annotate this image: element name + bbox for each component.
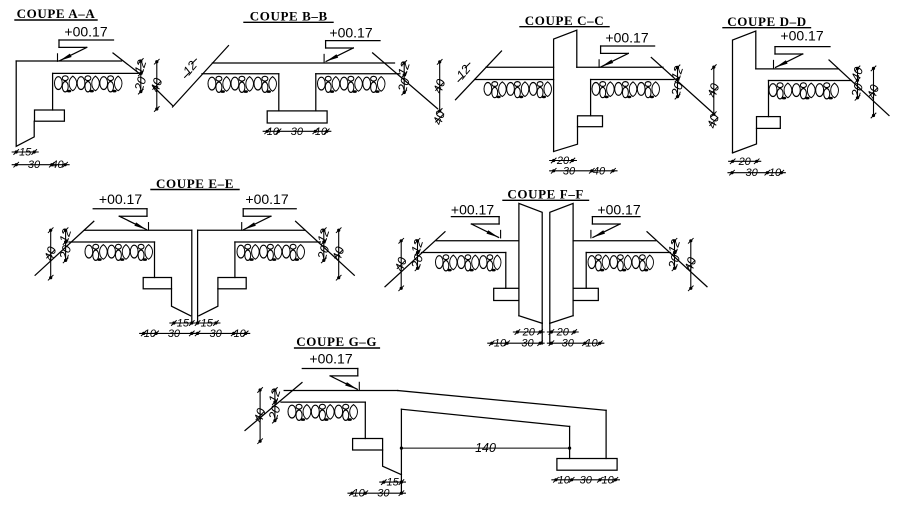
svg-text:30: 30: [168, 328, 181, 340]
section B-B break line right: [373, 53, 438, 109]
section D-D dims 20: [729, 160, 761, 162]
svg-text:20: 20: [522, 327, 536, 339]
svg-text:10: 10: [144, 328, 157, 340]
section F-F break line left: [385, 232, 445, 287]
section G-G slab top: [284, 390, 398, 392]
section E-E slab top right: [198, 229, 305, 231]
section E-E level mark right: [243, 208, 296, 210]
svg-text:40: 40: [593, 165, 606, 177]
svg-text:40: 40: [51, 159, 64, 171]
section F-F dims 30/10 right: [547, 342, 603, 344]
section D-D dim 40 right: [873, 68, 875, 115]
section D-D gravel line: [769, 80, 852, 82]
section A-A footing: [35, 110, 65, 121]
section C-C wall below right face: [590, 80, 592, 116]
svg-text:20: 20: [738, 156, 752, 168]
section F-F wall left: [519, 203, 542, 323]
section C-C gravel stones right: [592, 82, 660, 99]
section E-E break line left: [35, 221, 94, 275]
section A-A dim 15: [12, 151, 38, 153]
svg-text:30: 30: [28, 159, 41, 171]
svg-text:10: 10: [585, 338, 598, 350]
section C-C level mark: [601, 45, 655, 47]
section E-E footing right: [218, 278, 246, 289]
section C-C dims 20: [550, 160, 577, 162]
svg-text:COUPE C–C: COUPE C–C: [525, 13, 604, 28]
section D-D footing: [757, 117, 781, 129]
section B-B dim 12/20: [403, 63, 405, 93]
section C-C break line right: [651, 58, 714, 115]
svg-text:10: 10: [769, 167, 782, 179]
section E-E gravel stones right: [237, 244, 305, 261]
section G-G ramp top: [398, 391, 606, 411]
section B-B dim 40: [439, 62, 441, 111]
svg-text:30: 30: [377, 488, 390, 500]
section C-C gravel stones left: [484, 82, 552, 99]
section G-G beam right face: [400, 409, 402, 493]
svg-text:+00.17: +00.17: [597, 201, 640, 217]
section E-E gravel stones left: [85, 244, 153, 261]
svg-text:10: 10: [558, 474, 571, 486]
svg-text:+00.17: +00.17: [99, 191, 142, 207]
section E-E dims 10/30 left: [140, 332, 196, 334]
section A-A dims 30/40: [12, 164, 69, 166]
section F-F gravel stones right: [588, 255, 654, 272]
svg-text:+00.17: +00.17: [245, 191, 288, 207]
section F-F level mark right: [592, 216, 640, 218]
svg-text:COUPE G–G: COUPE G–G: [296, 334, 377, 349]
section F-F slab top right: [573, 240, 656, 242]
section C-C slab top left: [486, 66, 554, 68]
svg-text:COUPE B–B: COUPE B–B: [250, 9, 328, 24]
section B-B slab top: [212, 62, 394, 64]
section G-G ramp right face: [605, 410, 607, 458]
section F-F wall right below-ground face: [585, 253, 587, 289]
section F-F gravel line right: [586, 252, 670, 254]
svg-text:10: 10: [315, 126, 328, 138]
section A-A gravel stones: [55, 76, 123, 93]
section F-F footing left: [494, 288, 519, 300]
section E-E dim 40 left: [50, 230, 52, 278]
section D-D slab top: [756, 68, 839, 70]
section D-D gravel stones: [769, 83, 838, 100]
section D-D wall: [733, 31, 756, 153]
svg-text:COUPE F–F: COUPE F–F: [507, 187, 584, 202]
section G-G footing left: [353, 439, 383, 451]
section F-F footing right: [573, 288, 598, 300]
section A-A gravel line: [53, 72, 138, 74]
section D-D break line right: [829, 60, 889, 116]
section A-A level mark: [59, 39, 114, 41]
section E-E level mark left: [93, 208, 147, 210]
section E-E dims 30/10 right: [194, 332, 250, 334]
section E-E gravel line right: [235, 241, 321, 243]
section D-D dims 30/10: [728, 172, 785, 174]
section F-F joint extensions: [541, 323, 543, 344]
svg-text:+00.17: +00.17: [309, 351, 352, 367]
section F-F slab top left: [436, 240, 519, 242]
svg-text:30: 30: [521, 338, 534, 350]
section F-F gravel line left: [422, 252, 506, 254]
section B-B gravel stones right: [318, 76, 386, 93]
section A-A dim 12/20: [140, 61, 142, 92]
section C-C slab top right: [577, 66, 663, 68]
section C-C dims 30/40: [550, 170, 617, 172]
section G-G level mark: [302, 368, 358, 370]
svg-text:+00.17: +00.17: [605, 30, 648, 46]
section F-F dims 10/30 left: [488, 342, 544, 344]
section E-E wall inner faces: [154, 242, 156, 278]
svg-text:+00.17: +00.17: [64, 24, 107, 40]
section G-G dim 15: [380, 481, 406, 483]
section F-F break line right: [647, 232, 707, 287]
section C-C dim 12/20 right: [677, 67, 679, 96]
section F-F dims 20/20: [513, 331, 544, 333]
svg-text:+00.17: +00.17: [329, 25, 372, 41]
section G-G dim 40 left: [259, 390, 261, 441]
section A-A dim 40: [156, 62, 158, 109]
svg-text:30: 30: [580, 474, 593, 486]
section E-E dim 40 right: [338, 230, 340, 278]
section E-E break line right: [296, 221, 355, 275]
section G-G ramp bottom right face: [569, 426, 571, 458]
section B-B gravel stones left: [208, 76, 276, 93]
section B-B gravel line right: [316, 73, 400, 75]
section E-E slab top left: [84, 229, 191, 231]
section E-E dims 15/15: [170, 322, 196, 324]
svg-text:30: 30: [210, 328, 223, 340]
svg-text:10: 10: [234, 328, 247, 340]
svg-text:20: 20: [556, 327, 570, 339]
section G-G dims 10/30: [348, 492, 405, 494]
section E-E joint verticals: [191, 230, 193, 322]
section D-D dim 40 left (C-C total): [713, 67, 715, 114]
section G-G break line left: [245, 383, 302, 431]
section F-F dim 40 right: [690, 241, 692, 288]
section F-F dim 12/20 right: [674, 241, 676, 268]
section G-G gravel line: [281, 401, 365, 403]
section A-A wall outline: [16, 61, 34, 146]
section G-G ramp bottom: [401, 409, 569, 426]
svg-text:COUPE A–A: COUPE A–A: [17, 6, 96, 21]
svg-text:+00.17: +00.17: [780, 28, 823, 44]
section C-C break line left: [456, 51, 502, 100]
section E-E footing left: [143, 278, 171, 289]
section F-F wall left below-ground face: [505, 253, 507, 289]
section B-B footing: [267, 111, 327, 123]
section G-G dim 140: [401, 447, 569, 449]
section C-C gravel line right: [591, 79, 674, 81]
section B-B wall faces: [278, 74, 280, 111]
section C-C wall: [554, 30, 577, 151]
section F-F level mark left: [451, 216, 499, 218]
section G-G wall face: [364, 402, 366, 438]
section F-F dim 12/20 left: [417, 241, 419, 268]
svg-text:30: 30: [563, 165, 576, 177]
svg-text:30: 30: [745, 167, 758, 179]
svg-text:10: 10: [353, 488, 366, 500]
section E-E gravel line left: [69, 241, 155, 243]
section G-G gravel stones: [288, 404, 357, 421]
section G-G dims right 10/30/10: [552, 479, 620, 481]
section B-B level mark: [326, 40, 380, 42]
section B-B gravel line left: [202, 73, 279, 75]
section D-D dim 40/20 right: [857, 68, 859, 97]
section F-F dim 40 left: [400, 241, 402, 288]
svg-text:+00.17: +00.17: [451, 201, 494, 217]
svg-text:140: 140: [475, 441, 496, 455]
section B-B dims 10/30/10: [263, 130, 331, 132]
section A-A break line slash: [153, 86, 173, 106]
section A-A break line: [113, 53, 140, 74]
section F-F wall right: [550, 203, 573, 323]
section D-D wall below inner face: [768, 81, 770, 117]
section G-G dim 12/20 left: [274, 390, 276, 421]
svg-text:COUPE E–E: COUPE E–E: [156, 176, 234, 191]
svg-text:10: 10: [267, 126, 280, 138]
section C-C gravel line left: [475, 79, 554, 81]
svg-text:10: 10: [602, 474, 615, 486]
svg-text:15: 15: [19, 147, 32, 159]
svg-text:10: 10: [494, 338, 507, 350]
section C-C footing: [578, 116, 603, 127]
section E-E dim 12/20 right: [323, 230, 325, 260]
section F-F gravel stones left: [436, 255, 502, 272]
section B-B break line left: [173, 46, 229, 107]
section G-G footing right: [557, 459, 617, 471]
section E-E dim 12/20 left: [65, 230, 67, 260]
svg-text:30: 30: [291, 126, 304, 138]
section D-D level mark: [775, 46, 830, 48]
section A-A slab top: [16, 60, 121, 62]
svg-text:30: 30: [562, 338, 575, 350]
